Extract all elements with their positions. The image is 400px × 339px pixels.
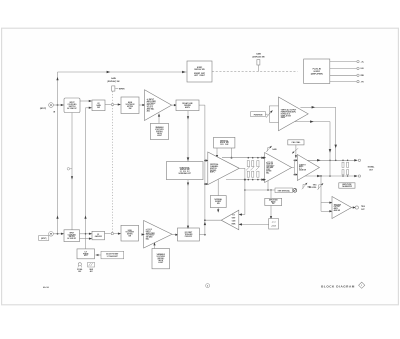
block delay line driver A1	[176, 100, 199, 111]
svg-text:LIGHT: LIGHT	[157, 135, 162, 137]
svg-text:FDBK: FDBK	[232, 223, 236, 225]
wire atten to amplifier U1	[139, 104, 146, 106]
block dc restorer trigger pickoff	[178, 228, 200, 241]
block input coupling CH1	[64, 98, 80, 113]
svg-text:BLOCK DIAGRAM: BLOCK DIAGRAM	[321, 285, 355, 289]
node CH1 input / X vertical	[57, 104, 59, 106]
svg-text:(DISPLAY) SW: (DISPLAY) SW	[252, 55, 265, 58]
wire U5 lower output	[295, 120, 330, 123]
svg-text:±1 TO X2: ±1 TO X2	[266, 162, 273, 164]
svg-text:HORIZ (X-Y): HORIZ (X-Y)	[281, 113, 291, 115]
wire grid gain switch to U6	[239, 223, 269, 225]
op-amp U7 CH2 input amplifier	[144, 221, 172, 249]
op-amp U1 CH1 input amplifier	[145, 90, 172, 121]
op-amp U6 feedback amplifier (left facing)	[221, 210, 239, 230]
arrowheads on top wire	[107, 71, 186, 74]
svg-text:(INPUT): (INPUT)	[41, 238, 47, 240]
wire coupling CH2 to 2x gain pair	[80, 233, 93, 240]
wire vertical x330 from upper band	[329, 122, 332, 176]
pot gain adjust	[88, 262, 95, 273]
svg-text:INPUT: INPUT	[69, 233, 74, 235]
wire dashed gain link to plug-in	[212, 71, 298, 73]
svg-text:STEP: STEP	[266, 169, 270, 171]
block horizontal display switch	[187, 61, 212, 82]
svg-text:OUTPUT: OUTPUT	[334, 206, 341, 208]
wire restorer to vertical bus	[199, 234, 205, 236]
wire and switch contact S2	[105, 232, 122, 234]
wire vertical bus x205	[204, 105, 206, 235]
arrow into U7	[142, 233, 145, 235]
wire channel-1 coupling link vertical x72	[67, 113, 73, 230]
wire U1 to variable volts-div	[158, 113, 160, 123]
wire U1 to delay driver	[172, 104, 178, 106]
svg-text:AMPL: AMPL	[210, 171, 215, 174]
wire U7 to dc restorer	[172, 234, 179, 236]
svg-text:TRIGGER: TRIGGER	[334, 204, 342, 206]
svg-text:(INPUT): (INPUT)	[40, 108, 47, 110]
svg-text:VOLTS/DIV: VOLTS/DIV	[156, 256, 165, 258]
wire CH2 input to coupling	[53, 233, 64, 235]
wire U5 upper output	[300, 106, 315, 109]
signal out terminals	[358, 159, 360, 177]
label sheet note	[206, 284, 210, 288]
svg-text:NEON: NEON	[158, 260, 164, 262]
op-amp U3 volts-div variable attenuator amp	[265, 153, 292, 183]
svg-text:X10: X10	[232, 215, 235, 217]
node CH2 input / X vertical	[57, 233, 59, 235]
svg-text:+1 -1: +1 -1	[272, 222, 276, 224]
wire U8 output terminal	[352, 206, 366, 211]
wire U6 output to restorer bus	[204, 219, 221, 235]
svg-text:4A-3A: 4A-3A	[43, 286, 49, 289]
wire vertical x336 from upper band	[315, 107, 337, 160]
block normal invert switch	[210, 196, 226, 208]
svg-text:LIGHT: LIGHT	[158, 262, 163, 264]
svg-text:SW: SW	[217, 203, 220, 205]
block horizontal display selector	[166, 162, 203, 180]
wire output rails to signal out	[305, 159, 358, 177]
pot dc bal adjust	[77, 263, 82, 273]
block 2x gain switch CH1	[92, 100, 105, 111]
wire gain link vertical x85	[84, 108, 86, 249]
wire delay feed x188 display switch to restorer	[187, 180, 189, 229]
block x-y phase adjust	[77, 249, 95, 259]
svg-text:+10 -10: +10 -10	[271, 226, 276, 228]
op-amp U5 vertical paraphase output amplifier	[279, 97, 309, 131]
trimmer bal below U4	[302, 182, 311, 189]
svg-text:(DISPLAY) SW: (DISPLAY) SW	[107, 80, 120, 83]
block input coupling CH2	[64, 230, 80, 242]
svg-text:NEON: NEON	[157, 133, 163, 135]
node ladder junctions	[248, 157, 259, 181]
wire coupling to 2x gain	[80, 100, 92, 102]
label position control	[251, 112, 266, 117]
svg-text:X1 X10 X-Y: X1 X10 X-Y	[180, 171, 190, 173]
trimmer gain adjust	[266, 145, 277, 152]
svg-text:INPUT: INPUT	[146, 231, 151, 233]
svg-text:1: 1	[361, 285, 362, 287]
GAIN display switch label with wiper pot	[107, 77, 125, 91]
wire and switch contact S1	[105, 103, 121, 105]
wire top X-Y to horizontal display	[58, 71, 187, 73]
svg-text:VOLTS/DIV: VOLTS/DIV	[266, 165, 275, 167]
wire vertical drop x188 A1 to display switch	[187, 111, 190, 162]
wire mechanical gain linkage dashed	[112, 91, 114, 232]
svg-text:POSITION: POSITION	[254, 114, 263, 116]
wire cal-bal pot into U4	[291, 145, 298, 158]
svg-text:WIPER: WIPER	[119, 89, 125, 91]
svg-text:VOLTS/DIV: VOLTS/DIV	[155, 129, 164, 131]
block amplitude calibrator	[339, 183, 355, 188]
node output rail junctions	[329, 160, 348, 177]
output compensation R-C branches	[342, 162, 349, 175]
block amplitude ratio switch	[265, 198, 282, 205]
block vertical mode switch	[214, 137, 235, 148]
wire invert switch stubs	[217, 179, 219, 212]
svg-text:CAL / BAL: CAL / BAL	[291, 141, 301, 144]
wire trigger pickoff from lower rail	[320, 175, 332, 212]
block cal-bal switch	[288, 140, 304, 145]
plug-in output terminals	[330, 60, 365, 83]
svg-text:TRIG: TRIG	[361, 206, 366, 208]
wire U7 to variable volts-div CH2	[153, 242, 155, 248]
svg-text:VOLTS/DIV: VOLTS/DIV	[146, 235, 155, 237]
svg-text:AC GND DC: AC GND DC	[67, 107, 77, 110]
svg-text:±1 CH 2: ±1 CH 2	[146, 229, 152, 231]
svg-text:VERT: VERT	[232, 218, 236, 220]
GAIN display switch label 2	[252, 53, 265, 72]
svg-text:(AMPLIFIER): (AMPLIFIER)	[311, 72, 323, 75]
svg-text:LEFT RIGHT: LEFT RIGHT	[194, 75, 206, 77]
op-amp U4 output amplifier	[297, 155, 319, 181]
potentiometer position	[265, 106, 278, 122]
connector J2 CH2 input	[39, 232, 54, 241]
svg-text:COUPLING: COUPLING	[68, 234, 77, 236]
svg-text:SW: SW	[128, 236, 131, 238]
block step atten bal adjust	[275, 188, 297, 193]
block volts-div attenuator CH2	[121, 225, 139, 241]
op-amp U8 trigger output amplifier	[332, 197, 352, 219]
svg-text:GAIN: GAIN	[256, 53, 261, 56]
svg-text:ADJ: ADJ	[147, 109, 150, 112]
attenuator ladder R-C branches	[246, 161, 259, 178]
wire CH1 input to coupling	[53, 104, 64, 106]
wire from channel link vertical into 2x gain	[86, 107, 92, 109]
svg-text:SW: SW	[97, 107, 100, 109]
svg-text:GAIN: GAIN	[111, 77, 116, 80]
block plug-in horizontal amplifier	[304, 59, 330, 84]
connector J1 CH1 input	[40, 103, 56, 114]
wire A1 output to vertical bus	[199, 104, 205, 106]
block variable volts-div uncal CH1	[150, 123, 168, 139]
op-amp U2 vertical channel switch	[208, 152, 240, 185]
label signal out	[368, 165, 376, 171]
wire U3 output pair to U4	[292, 159, 299, 175]
svg-text:PICKOFF: PICKOFF	[185, 236, 192, 238]
svg-text:VOLTS/DIV: VOLTS/DIV	[125, 232, 134, 234]
trimmer trig dc level	[309, 182, 324, 189]
wire U3 lower feedback to step atten bal	[244, 181, 275, 191]
svg-text:CH1 CH2: CH1 CH2	[220, 144, 228, 146]
svg-text:DISPLAY SW: DISPLAY SW	[194, 68, 205, 71]
svg-text:OUTPUT: OUTPUT	[299, 164, 306, 166]
block gain select grid	[269, 219, 279, 230]
svg-text:SW: SW	[129, 108, 132, 110]
block volts-div attenuator CH1	[121, 97, 139, 114]
svg-text:DC LEVEL: DC LEVEL	[309, 187, 317, 189]
label block diagram title	[321, 282, 365, 289]
wire feedback vertical x245	[239, 168, 246, 215]
svg-text:SIGNAL: SIGNAL	[368, 165, 376, 168]
arrowheads into U3	[263, 157, 266, 181]
block variable volts-div uncal CH2	[152, 249, 170, 269]
note adjust for best x-y phase	[95, 251, 123, 258]
wire mid rails to attenuator ladder	[222, 157, 265, 181]
svg-text:SWITCH: SWITCH	[69, 236, 76, 238]
wire stub into mid channel switch amp	[204, 159, 209, 185]
wire X-Y horizontal pickoff vertical x57	[56, 72, 58, 234]
wire U2 tip to feedback bus	[239, 167, 245, 169]
wire mode switch drops	[216, 148, 233, 159]
wire ratio switch links	[270, 190, 272, 219]
block 2x gain switch CH2	[92, 231, 105, 240]
